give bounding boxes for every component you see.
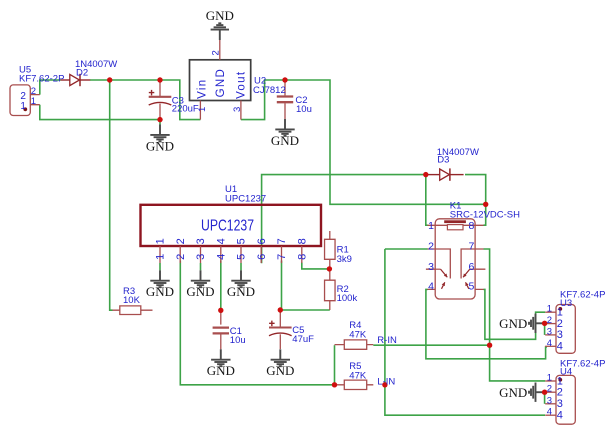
svg-text:7: 7 xyxy=(468,241,474,253)
svg-text:GND: GND xyxy=(271,133,299,148)
svg-text:5: 5 xyxy=(468,280,474,292)
svg-text:1: 1 xyxy=(547,373,552,384)
svg-text:6: 6 xyxy=(468,261,474,273)
svg-text:1: 1 xyxy=(557,307,563,319)
svg-text:2: 2 xyxy=(557,318,563,330)
svg-text:2: 2 xyxy=(428,241,434,253)
svg-text:4: 4 xyxy=(557,410,563,422)
svg-text:3: 3 xyxy=(547,395,552,406)
svg-text:2: 2 xyxy=(547,315,552,326)
svg-text:10u: 10u xyxy=(296,104,312,115)
svg-text:GND: GND xyxy=(146,284,174,299)
svg-text:3: 3 xyxy=(232,107,243,112)
svg-text:1: 1 xyxy=(428,220,434,232)
svg-text:L-IN: L-IN xyxy=(377,377,395,388)
svg-text:CJ7812: CJ7812 xyxy=(253,85,286,96)
svg-text:4: 4 xyxy=(547,338,552,349)
svg-text:GND: GND xyxy=(266,363,294,378)
svg-text:1: 1 xyxy=(20,101,26,112)
svg-text:2: 2 xyxy=(175,238,187,244)
svg-text:4: 4 xyxy=(215,238,227,244)
svg-text:3: 3 xyxy=(557,329,563,341)
svg-text:D2: D2 xyxy=(76,68,88,79)
svg-text:2: 2 xyxy=(547,384,552,395)
svg-text:3: 3 xyxy=(557,398,563,410)
svg-text:1: 1 xyxy=(31,96,36,107)
svg-text:4: 4 xyxy=(215,254,227,260)
svg-text:1: 1 xyxy=(547,304,552,315)
svg-text:1: 1 xyxy=(155,254,167,260)
svg-text:5: 5 xyxy=(236,254,248,260)
svg-text:10K: 10K xyxy=(123,295,141,306)
svg-text:GND: GND xyxy=(186,284,214,299)
svg-text:2: 2 xyxy=(557,387,563,399)
svg-text:100k: 100k xyxy=(337,293,358,304)
svg-text:KF7.62-2P: KF7.62-2P xyxy=(19,74,64,85)
svg-text:220uF: 220uF xyxy=(172,103,199,114)
svg-text:47uF: 47uF xyxy=(292,334,314,345)
svg-text:8: 8 xyxy=(468,220,474,232)
svg-text:1: 1 xyxy=(197,107,208,112)
svg-text:4: 4 xyxy=(428,280,434,292)
svg-text:47K: 47K xyxy=(349,370,367,381)
svg-text:GND: GND xyxy=(146,138,174,153)
svg-text:D3: D3 xyxy=(437,155,449,166)
svg-text:1: 1 xyxy=(557,375,563,387)
svg-text:6: 6 xyxy=(256,238,268,244)
svg-text:UPC1237: UPC1237 xyxy=(201,217,254,234)
svg-text:GND: GND xyxy=(499,316,527,331)
svg-text:2: 2 xyxy=(210,50,221,55)
svg-text:3: 3 xyxy=(195,238,207,244)
svg-text:3: 3 xyxy=(428,261,434,273)
svg-text:R-IN: R-IN xyxy=(377,335,397,346)
svg-text:47K: 47K xyxy=(349,330,367,341)
svg-text:GND: GND xyxy=(227,284,255,299)
svg-text:GND: GND xyxy=(499,385,527,400)
svg-text:4: 4 xyxy=(557,341,563,353)
svg-text:Vout: Vout xyxy=(236,71,248,99)
svg-text:8: 8 xyxy=(296,238,308,244)
svg-text:GND: GND xyxy=(215,68,227,97)
svg-text:4: 4 xyxy=(547,407,552,418)
svg-text:7: 7 xyxy=(276,238,288,244)
svg-text:3: 3 xyxy=(547,326,552,337)
svg-text:Vin: Vin xyxy=(197,79,209,99)
svg-text:2: 2 xyxy=(175,254,187,260)
svg-text:10u: 10u xyxy=(230,335,246,346)
svg-text:5: 5 xyxy=(236,238,248,244)
svg-text:1: 1 xyxy=(155,238,167,244)
svg-text:3: 3 xyxy=(195,254,207,260)
svg-text:7: 7 xyxy=(276,254,288,260)
svg-text:6: 6 xyxy=(256,254,268,260)
svg-text:SRC-12VDC-SH: SRC-12VDC-SH xyxy=(450,210,520,221)
svg-text:UPC1237: UPC1237 xyxy=(225,194,266,205)
svg-text:3k9: 3k9 xyxy=(337,254,352,265)
svg-text:GND: GND xyxy=(207,363,235,378)
svg-text:GND: GND xyxy=(206,8,234,23)
svg-text:8: 8 xyxy=(296,254,308,260)
